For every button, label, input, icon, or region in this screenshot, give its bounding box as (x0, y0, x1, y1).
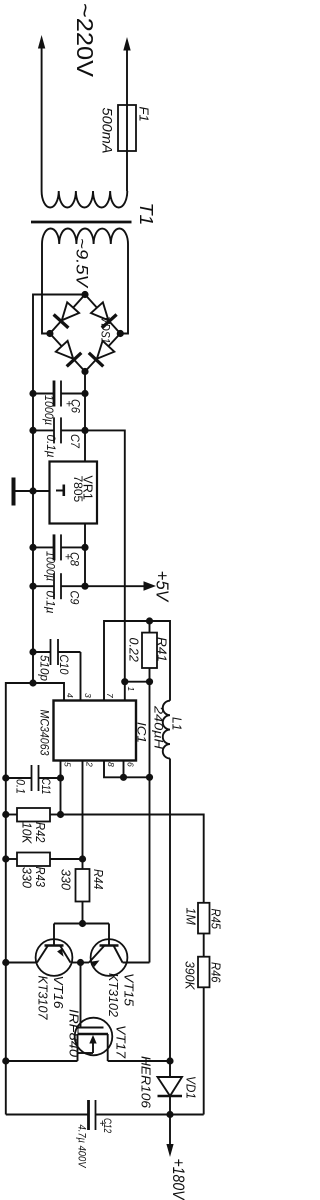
node pin5 R42 feedback (57, 811, 64, 818)
svg-text:F1: F1 (137, 107, 152, 122)
capacitor C7 0.1u (33, 417, 85, 443)
capacitor C8 1000u (33, 534, 85, 560)
svg-text:390K: 390K (183, 961, 197, 990)
svg-text:IRF840: IRF840 (67, 1009, 82, 1058)
svg-text:VDS1: VDS1 (99, 317, 113, 344)
resistor R44 330 (76, 859, 90, 924)
node R41 bottom (146, 678, 153, 685)
node rail R43 (2, 855, 9, 862)
node rail R42 (2, 811, 9, 818)
diode VDS1 top-right (91, 302, 117, 328)
node rail C11 (2, 774, 9, 781)
svg-text:7805: 7805 (71, 476, 85, 503)
wire rail jog and pin4 ground (6, 683, 64, 1115)
transformer T1 core (31, 221, 132, 224)
wire feedback to divider (61, 815, 204, 903)
node base bus (79, 920, 86, 927)
svg-text:R45: R45 (209, 909, 223, 930)
node output C12 (166, 1111, 173, 1118)
node rail jog (29, 679, 36, 686)
svg-text:~9.5V: ~9.5V (73, 238, 92, 289)
svg-text:C10: C10 (57, 655, 71, 675)
resistor R41 0.22 (142, 621, 157, 682)
svg-text:KT3107: KT3107 (36, 976, 51, 1021)
transformer T1 primary winding (42, 191, 128, 208)
regulator VR1 7805 (50, 462, 98, 524)
svg-text:R46: R46 (209, 962, 223, 983)
node C7 raw tap (81, 427, 88, 434)
wire pin8 to pin6 bus (104, 761, 150, 778)
svg-text:C7: C7 (68, 434, 80, 449)
svg-text:0.1µ: 0.1µ (44, 435, 56, 458)
wire mains right with arrow (123, 37, 130, 105)
wire bus pin1 R41 bottom (125, 681, 150, 683)
node pin2 R43 R44 (79, 855, 86, 862)
diode VDS1 top-left (54, 302, 80, 328)
svg-text:8: 8 (106, 762, 116, 767)
svg-text:+180V: +180V (169, 1159, 188, 1200)
wire source to rail (6, 1060, 78, 1062)
svg-text:0.1µ: 0.1µ (44, 591, 56, 614)
node rail C8 (29, 544, 36, 551)
svg-text:4: 4 (65, 693, 75, 698)
svg-text:C11: C11 (39, 778, 53, 795)
transistor VT17 IRF840 (75, 1018, 113, 1061)
fuse F1 500mA (118, 105, 136, 151)
wire base bus (54, 923, 109, 925)
node drain VD1 (166, 1057, 173, 1064)
wire gate down (80, 963, 82, 1028)
svg-text:330: 330 (59, 869, 73, 890)
transistor VT16 KT3107 (6, 924, 81, 976)
bridge rectifier VDS1 frame (50, 295, 120, 372)
svg-text:T1: T1 (136, 203, 156, 226)
svg-text:0.1: 0.1 (14, 779, 28, 794)
wire secondary right to bridge (120, 244, 128, 334)
svg-text:3: 3 (83, 693, 93, 698)
node R41 top (146, 617, 153, 624)
node rail C9 (29, 583, 36, 590)
resistor R43 330 (6, 853, 83, 867)
svg-text:510p: 510p (38, 655, 52, 681)
node Vcc bus (146, 774, 153, 781)
capacitor C12 4.7u 400V (89, 1100, 171, 1130)
wire bus pin7 R41 L1 (104, 621, 170, 701)
capacitor C9 0.1u (33, 573, 85, 599)
svg-text:VT16: VT16 (51, 976, 66, 1010)
svg-text:10K: 10K (20, 822, 34, 844)
svg-text:R42: R42 (33, 822, 47, 843)
svg-text:4.7µ 400V: 4.7µ 400V (76, 1125, 88, 1169)
svg-text:240µH: 240µH (151, 705, 165, 750)
diode VD1 HER106 (158, 1061, 183, 1115)
transistor VT15 KT3102 (81, 924, 150, 976)
node rail source (2, 1057, 9, 1064)
wire output +180V with arrow (166, 1115, 173, 1158)
node pin5 C11 (57, 774, 64, 781)
capacitor C6 1000u (33, 381, 85, 407)
IC U1 MC34063 box (54, 701, 137, 761)
svg-text:2: 2 (85, 761, 95, 767)
svg-text:IC1: IC1 (135, 722, 149, 743)
svg-text:VT15: VT15 (122, 973, 137, 1007)
svg-text:R43: R43 (33, 867, 47, 888)
wire divider bottom to output (170, 1114, 204, 1116)
svg-text:R41: R41 (155, 637, 169, 662)
wire bottom rail left (6, 1114, 89, 1116)
svg-text:HER106: HER106 (139, 1056, 154, 1109)
inductor L1 240uH (163, 701, 170, 759)
node out C8 (81, 544, 88, 551)
svg-text:1000µ: 1000µ (42, 395, 54, 425)
wire C10 to pin3 (80, 652, 82, 701)
svg-text:C8: C8 (68, 552, 80, 567)
wire pin6 stub (123, 761, 125, 778)
svg-text:VD1: VD1 (184, 1076, 199, 1099)
resistor R42 10K (6, 808, 61, 822)
wire L1 down to VD1 (169, 759, 171, 1062)
node emitters gate (77, 959, 84, 966)
resistor R46 390K (198, 957, 210, 1115)
svg-text:7: 7 (105, 693, 115, 698)
svg-text:C12: C12 (101, 1118, 113, 1133)
diode VDS1 bottom-right (89, 341, 115, 367)
svg-text:330: 330 (20, 867, 34, 888)
node rail ground (29, 487, 36, 494)
svg-text:6: 6 (126, 762, 136, 767)
wire pin1 stub (124, 682, 126, 701)
svg-text:L1: L1 (170, 717, 184, 731)
svg-text:+5V: +5V (153, 571, 173, 604)
svg-text:R44: R44 (91, 869, 105, 890)
svg-text:5: 5 (63, 762, 73, 767)
capacitor C10 510p (33, 639, 81, 665)
wire VR1 output down (84, 524, 86, 587)
wire bridge plus down (84, 372, 86, 462)
ground symbol (14, 478, 50, 506)
node bridge right (117, 330, 124, 337)
node out C9 +5V tap (81, 583, 88, 590)
wire +5V with arrow (85, 581, 156, 591)
wire fuse to primary (126, 151, 128, 191)
node bridge bottom (81, 368, 88, 375)
svg-text:0.22: 0.22 (127, 638, 141, 662)
wire secondary left to bridge (42, 244, 50, 334)
svg-text:C9: C9 (68, 591, 80, 606)
node bridge top (81, 291, 88, 298)
node rail VT16 collector (2, 959, 9, 966)
wire bridge minus to ground rail (33, 295, 85, 684)
wire mains left with arrow (38, 35, 45, 191)
svg-text:1M: 1M (184, 908, 198, 926)
wire raw bypass to converter (85, 430, 125, 681)
svg-text:KT3102: KT3102 (106, 973, 121, 1018)
node bridge left (46, 330, 53, 337)
node rail C10 (29, 648, 36, 655)
node rail C7 (29, 427, 36, 434)
node plus C6 (81, 390, 88, 397)
wire drain to VD1 (108, 1060, 170, 1062)
resistor R45 1M (198, 903, 210, 957)
svg-text:MC34063: MC34063 (38, 710, 50, 757)
capacitor C11 0.1 (6, 765, 61, 791)
node pin1 raw (121, 678, 128, 685)
transformer T1 secondary winding (42, 228, 128, 244)
svg-text:500mA: 500mA (100, 108, 116, 154)
node pin6 (120, 774, 127, 781)
svg-text:1: 1 (126, 687, 136, 692)
svg-text:VT17: VT17 (114, 1025, 129, 1059)
node rail C6 (29, 390, 36, 397)
svg-text:~220V: ~220V (72, 3, 98, 78)
wire pin5 down (60, 761, 62, 815)
svg-text:C6: C6 (69, 399, 81, 414)
wire Vin vertical (149, 682, 151, 963)
wire pin2 down (82, 761, 84, 860)
diode VDS1 bottom-left (56, 341, 82, 367)
